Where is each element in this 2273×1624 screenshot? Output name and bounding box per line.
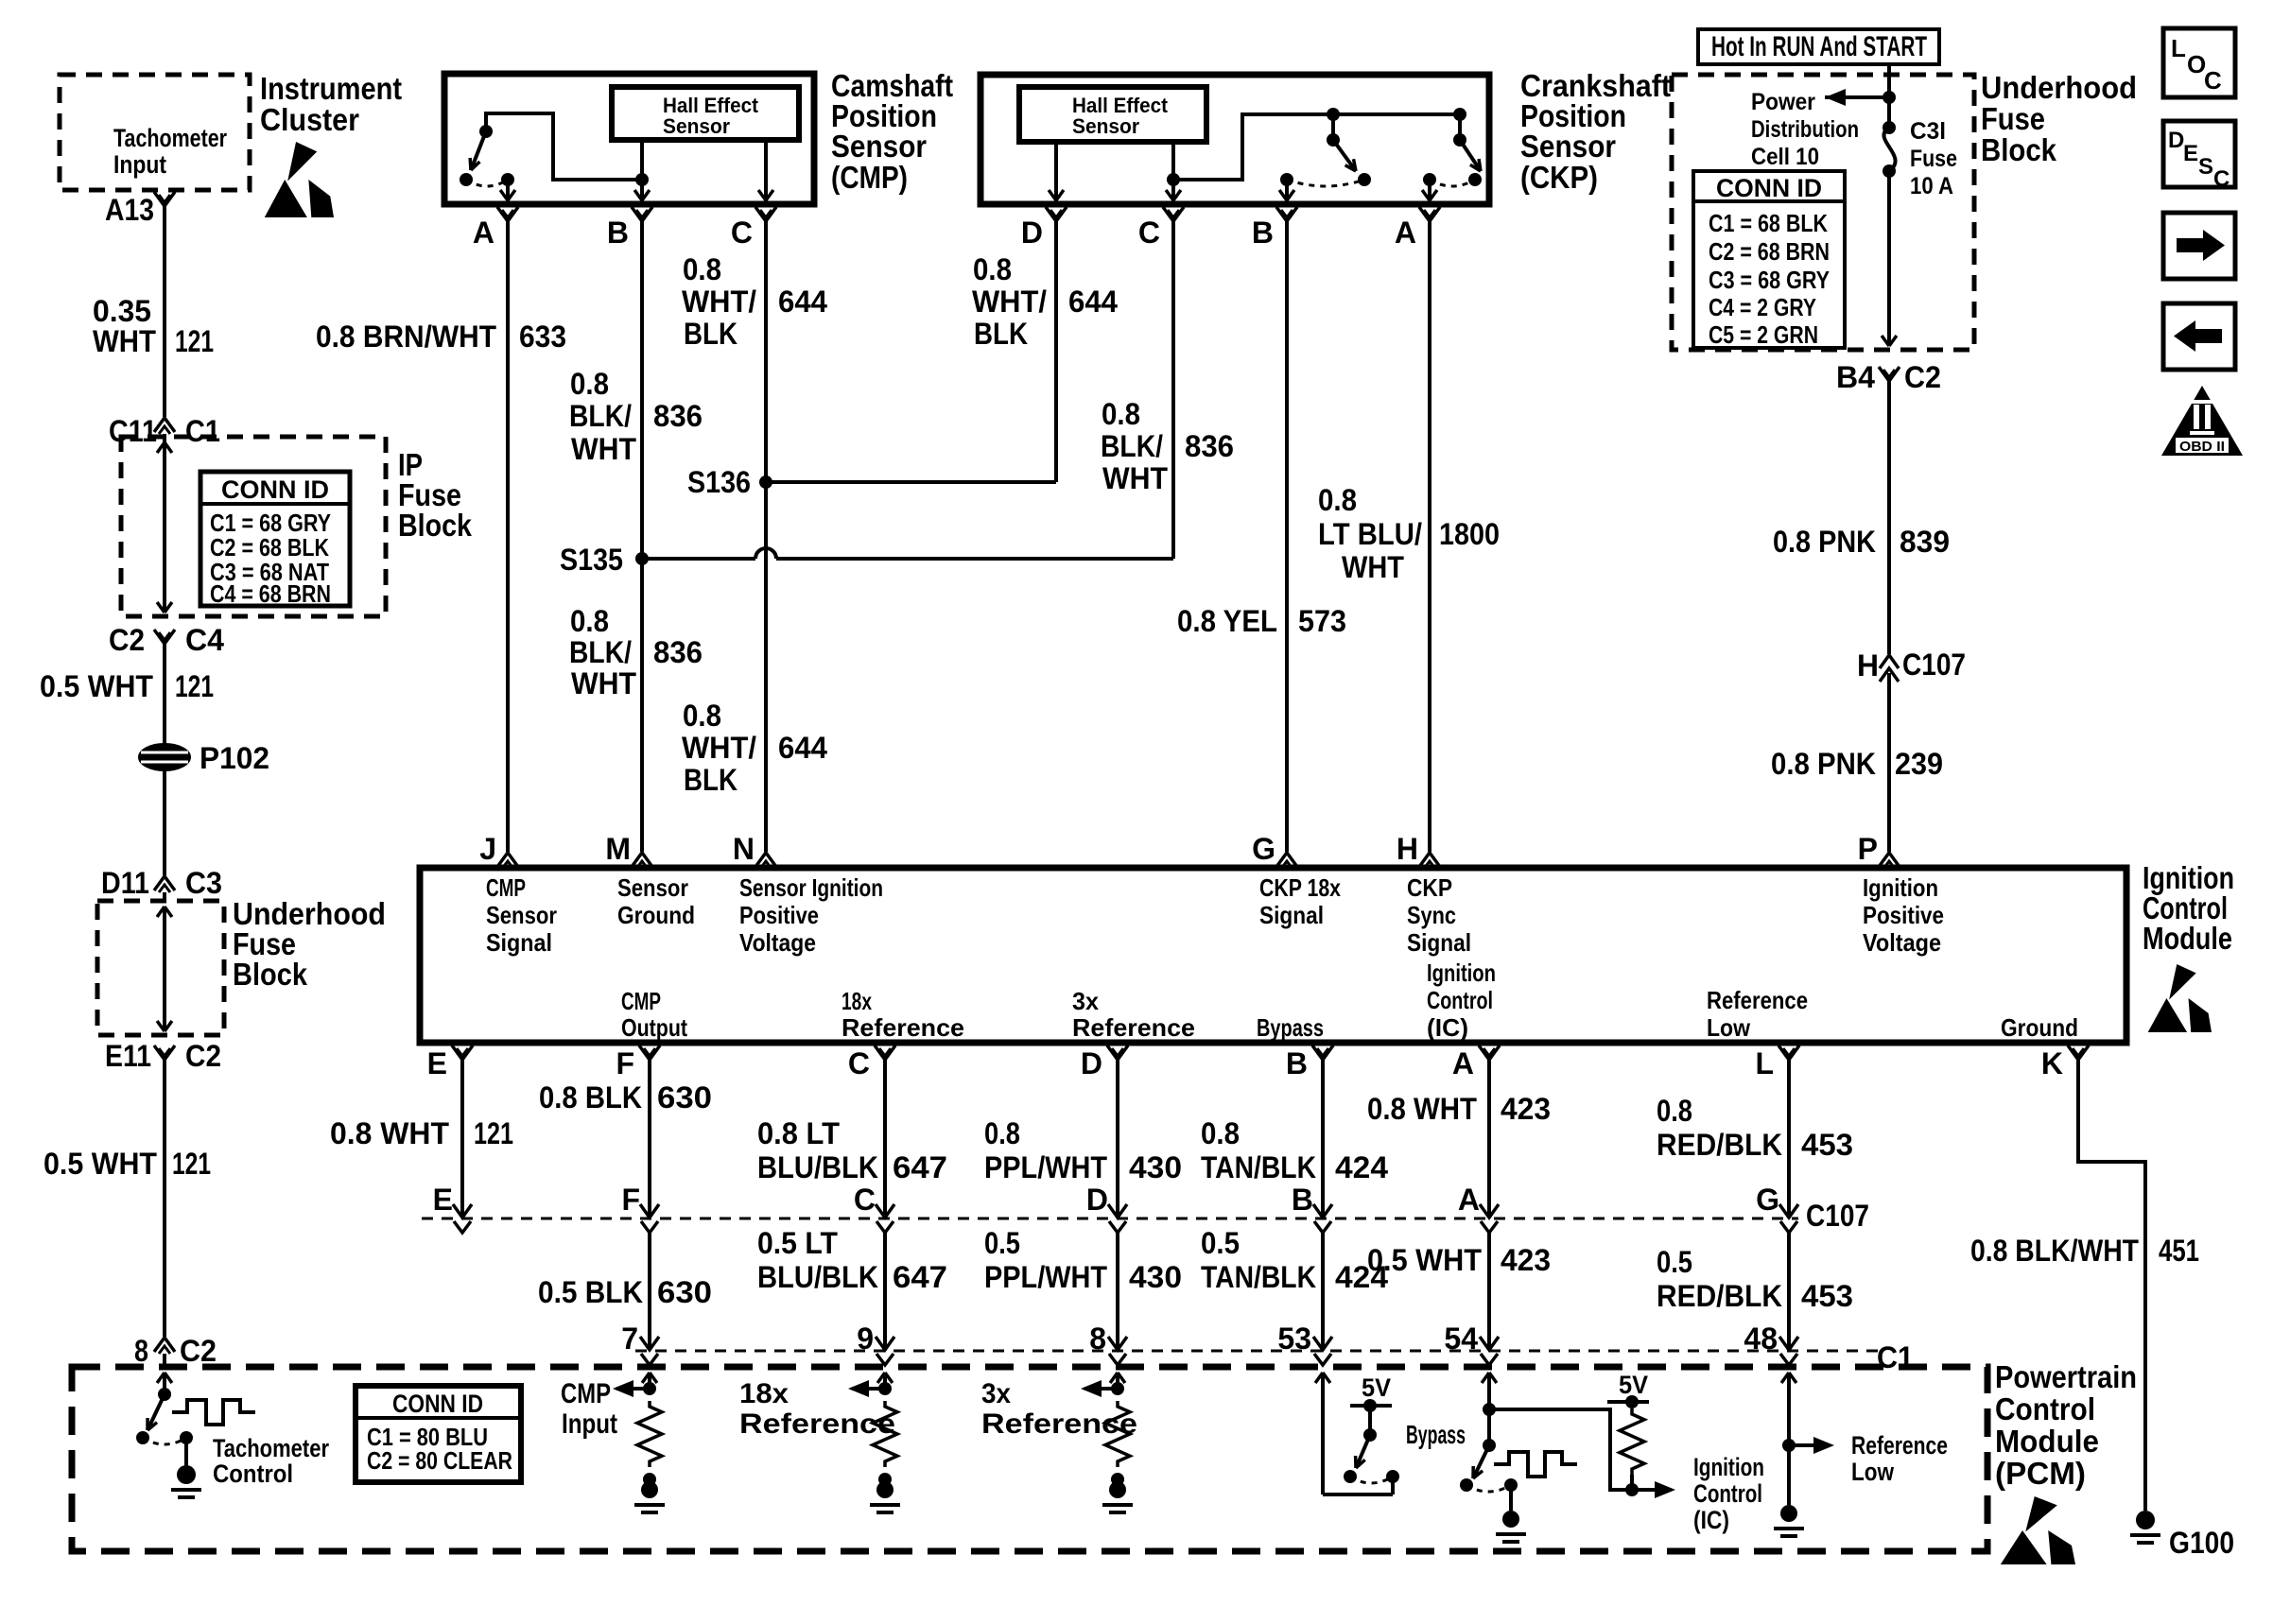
svg-text:8: 8 [1089,1322,1106,1356]
svg-text:C1: C1 [185,414,220,448]
svg-text:C1 = 68 BLK: C1 = 68 BLK [1709,209,1828,237]
svg-text:0.8 LT: 0.8 LT [757,1116,840,1150]
svg-text:8: 8 [134,1334,148,1368]
svg-text:Control: Control [1995,1391,2095,1426]
svg-text:D: D [1081,1046,1102,1080]
svg-text:CMP: CMP [486,873,526,902]
svg-text:C2: C2 [1904,360,1941,394]
svg-text:G: G [1252,832,1275,866]
svg-text:CKP: CKP [1407,873,1452,902]
svg-text:Sync: Sync [1407,901,1456,929]
svg-text:S135: S135 [560,543,623,577]
svg-text:Tachometer: Tachometer [113,124,227,152]
svg-text:0.35: 0.35 [93,294,151,328]
svg-text:836: 836 [653,635,703,669]
svg-text:C2: C2 [109,623,145,657]
svg-text:Positive: Positive [1863,901,1944,929]
svg-text:B: B [1252,216,1274,250]
svg-text:E: E [2183,141,2198,166]
svg-text:(CKP): (CKP) [1520,160,1598,195]
svg-text:CONN ID: CONN ID [221,475,329,504]
svg-text:451: 451 [2159,1234,2199,1268]
svg-text:F: F [621,1183,640,1217]
svg-text:C: C [848,1046,870,1080]
svg-text:0.8 BLK: 0.8 BLK [539,1080,642,1114]
svg-text:Tachometer: Tachometer [213,1434,329,1462]
svg-text:Sensor: Sensor [663,114,730,138]
svg-text:D11: D11 [101,866,149,900]
svg-text:Sensor: Sensor [831,129,927,164]
svg-text:D: D [2168,128,2184,153]
svg-text:453: 453 [1801,1279,1853,1313]
svg-text:C: C [731,216,753,250]
svg-text:H: H [1857,648,1879,682]
svg-text:Signal: Signal [1259,901,1324,929]
svg-text:BLK: BLK [974,317,1028,351]
svg-text:PPL/WHT: PPL/WHT [984,1150,1107,1184]
svg-text:Sensor: Sensor [1520,129,1616,164]
svg-text:A: A [473,216,495,250]
svg-text:Power: Power [1751,89,1815,115]
svg-text:Sensor: Sensor [1072,114,1139,138]
svg-text:836: 836 [653,399,703,433]
svg-text:Sensor: Sensor [617,873,688,902]
svg-text:C11: C11 [109,414,157,448]
svg-text:H: H [1397,832,1418,866]
svg-text:18x: 18x [739,1378,789,1409]
svg-text:0.8: 0.8 [570,604,609,638]
svg-text:Bypass: Bypass [1257,1013,1324,1042]
svg-text:423: 423 [1501,1092,1551,1126]
svg-text:BLK: BLK [684,763,737,797]
svg-text:10 A: 10 A [1910,173,1953,199]
svg-text:CONN ID: CONN ID [1716,174,1822,202]
svg-text:PPL/WHT: PPL/WHT [984,1260,1107,1294]
svg-text:WHT/: WHT/ [682,731,756,765]
svg-text:Ignition: Ignition [1427,959,1496,987]
svg-text:121: 121 [474,1116,513,1150]
svg-text:WHT: WHT [571,666,636,700]
svg-text:CKP 18x: CKP 18x [1259,873,1341,902]
svg-text:OBD II: OBD II [2179,439,2225,455]
svg-text:G: G [1756,1183,1779,1217]
svg-text:Fuse: Fuse [1981,101,2045,136]
svg-text:C2: C2 [180,1334,217,1368]
svg-text:D: D [1086,1183,1108,1217]
svg-text:CMP: CMP [561,1378,611,1409]
svg-text:0.8 WHT: 0.8 WHT [330,1116,449,1150]
svg-text:(IC): (IC) [1427,1013,1468,1042]
svg-text:TAN/BLK: TAN/BLK [1201,1260,1316,1294]
svg-text:Instrument: Instrument [260,71,402,106]
svg-text:C: C [2204,66,2222,95]
svg-text:M: M [605,832,631,866]
svg-text:121: 121 [172,1147,211,1181]
svg-text:C4: C4 [185,623,224,657]
svg-text:839: 839 [1900,525,1950,559]
svg-text:BLU/BLK: BLU/BLK [757,1150,878,1184]
svg-text:E11: E11 [105,1039,151,1073]
svg-text:Voltage: Voltage [739,928,816,957]
svg-text:0.8: 0.8 [1102,397,1140,431]
svg-text:Low: Low [1707,1013,1751,1042]
svg-text:C107: C107 [1902,648,1966,682]
svg-text:Signal: Signal [486,928,552,957]
svg-text:WHT/: WHT/ [972,285,1047,319]
svg-text:Module: Module [2143,921,2232,956]
svg-text:Positive: Positive [739,901,819,929]
svg-text:Block: Block [398,508,473,543]
svg-text:Powertrain: Powertrain [1995,1359,2137,1394]
svg-text:LT BLU/: LT BLU/ [1318,517,1422,551]
svg-text:N: N [733,832,755,866]
svg-text:Input: Input [562,1408,617,1440]
svg-text:Bypass: Bypass [1406,1420,1466,1449]
svg-text:WHT: WHT [1102,461,1168,495]
svg-text:0.5 LT: 0.5 LT [757,1226,838,1260]
svg-text:WHT: WHT [571,432,636,466]
svg-text:644: 644 [778,285,827,319]
svg-text:0.5: 0.5 [1201,1226,1240,1260]
svg-text:RED/BLK: RED/BLK [1657,1128,1782,1162]
svg-text:239: 239 [1895,747,1943,781]
svg-text:5V: 5V [1619,1371,1648,1399]
svg-text:0.8 BLK/WHT: 0.8 BLK/WHT [1970,1234,2139,1268]
svg-text:WHT: WHT [93,324,156,358]
svg-text:3x: 3x [1072,987,1100,1015]
svg-text:B: B [607,216,629,250]
svg-text:TAN/BLK: TAN/BLK [1201,1150,1316,1184]
svg-text:Ground: Ground [2001,1013,2078,1042]
svg-text:C2 = 80 CLEAR: C2 = 80 CLEAR [367,1446,512,1475]
svg-text:Ignition: Ignition [1863,873,1938,902]
svg-text:0.5: 0.5 [984,1226,1020,1260]
svg-text:0.8: 0.8 [1201,1116,1240,1150]
svg-text:Ground: Ground [617,901,695,929]
svg-text:0.8 YEL: 0.8 YEL [1177,604,1277,638]
svg-text:C4 = 2 GRY: C4 = 2 GRY [1709,293,1816,321]
svg-text:(CMP): (CMP) [831,160,908,195]
svg-text:121: 121 [175,669,214,703]
svg-text:L: L [1755,1046,1774,1080]
svg-text:WHT/: WHT/ [682,285,756,319]
svg-text:BLU/BLK: BLU/BLK [757,1260,878,1294]
svg-text:453: 453 [1801,1128,1853,1162]
svg-text:630: 630 [657,1080,712,1114]
svg-text:E: E [433,1183,453,1217]
svg-text:53: 53 [1277,1322,1311,1356]
svg-text:1800: 1800 [1439,517,1500,551]
svg-text:L: L [2171,34,2186,62]
svg-text:Block: Block [1981,132,2057,167]
svg-text:A: A [1395,216,1416,250]
svg-text:B4: B4 [1836,360,1875,394]
svg-text:18x: 18x [842,987,872,1015]
svg-text:J: J [479,832,496,866]
svg-text:F: F [616,1046,634,1080]
svg-text:BLK: BLK [684,317,737,351]
svg-text:0.8 PNK: 0.8 PNK [1773,525,1876,559]
svg-text:G100: G100 [2169,1526,2234,1560]
svg-text:B: B [1286,1046,1308,1080]
svg-text:647: 647 [893,1150,947,1184]
svg-text:Underhood: Underhood [1981,70,2137,105]
svg-text:Reference: Reference [1072,1013,1195,1042]
svg-text:Distribution: Distribution [1751,116,1859,143]
svg-text:0.8 PNK: 0.8 PNK [1771,747,1876,781]
svg-text:Block: Block [233,957,308,992]
svg-text:836: 836 [1185,429,1234,463]
svg-text:RED/BLK: RED/BLK [1657,1279,1782,1313]
svg-text:Input: Input [113,150,166,179]
svg-text:Sensor: Sensor [486,901,557,929]
svg-text:0.5: 0.5 [1657,1245,1692,1279]
svg-text:48: 48 [1744,1322,1778,1356]
svg-text:B: B [1292,1183,1313,1217]
svg-text:WHT: WHT [1342,550,1404,584]
svg-text:Control: Control [1693,1479,1762,1508]
svg-text:D: D [1021,216,1043,250]
svg-text:633: 633 [519,320,566,354]
svg-text:S136: S136 [687,465,751,499]
svg-text:0.8: 0.8 [570,367,609,401]
svg-text:430: 430 [1129,1260,1182,1294]
svg-text:Reference: Reference [1707,986,1808,1014]
svg-text:Voltage: Voltage [1863,928,1941,957]
svg-text:0.5 WHT: 0.5 WHT [1367,1243,1482,1277]
svg-text:Cell 10: Cell 10 [1751,144,1819,170]
svg-text:C3l: C3l [1910,118,1946,145]
svg-text:7: 7 [621,1322,638,1356]
svg-text:P102: P102 [200,741,269,775]
svg-text:BLK/: BLK/ [569,635,632,669]
svg-text:0.8: 0.8 [1657,1094,1692,1128]
svg-text:C107: C107 [1806,1199,1869,1233]
svg-text:647: 647 [893,1260,947,1294]
svg-text:C4 = 68 BRN: C4 = 68 BRN [210,579,331,608]
svg-text:423: 423 [1501,1243,1551,1277]
svg-text:Control: Control [1427,986,1493,1014]
svg-text:0.5 WHT: 0.5 WHT [40,669,153,703]
svg-text:0.5 WHT: 0.5 WHT [43,1147,157,1181]
svg-text:A13: A13 [105,193,154,227]
svg-text:A: A [1452,1046,1474,1080]
svg-text:0.8: 0.8 [1318,483,1357,517]
svg-text:573: 573 [1298,604,1346,638]
svg-text:E: E [427,1046,447,1080]
svg-text:630: 630 [657,1275,712,1309]
svg-text:C: C [854,1183,876,1217]
svg-text:C5 = 2 GRN: C5 = 2 GRN [1709,320,1818,349]
svg-text:(IC): (IC) [1693,1506,1729,1534]
svg-text:0.8: 0.8 [683,252,721,286]
svg-text:644: 644 [1068,285,1118,319]
svg-text:(PCM): (PCM) [1995,1456,2086,1491]
svg-text:3x: 3x [981,1378,1011,1409]
svg-text:0.5 BLK: 0.5 BLK [538,1275,643,1309]
svg-text:C2 = 68 BRN: C2 = 68 BRN [1709,237,1830,266]
svg-text:0.8 WHT: 0.8 WHT [1367,1092,1477,1126]
svg-text:5V: 5V [1362,1373,1391,1402]
svg-text:54: 54 [1444,1322,1478,1356]
svg-text:BLK/: BLK/ [569,399,632,433]
svg-text:Control: Control [213,1460,293,1488]
svg-text:Hot In RUN And START: Hot In RUN And START [1711,31,1927,62]
svg-text:0.8 BRN/WHT: 0.8 BRN/WHT [316,320,496,354]
svg-text:430: 430 [1129,1150,1182,1184]
svg-text:Reference: Reference [1851,1431,1948,1460]
svg-text:Reference: Reference [981,1408,1137,1440]
svg-text:CMP: CMP [621,987,661,1015]
svg-text:121: 121 [175,324,214,358]
svg-text:644: 644 [778,731,827,765]
svg-text:Signal: Signal [1407,928,1471,957]
svg-text:P: P [1858,832,1878,866]
svg-text:Ignition: Ignition [1693,1453,1764,1481]
svg-text:Sensor Ignition: Sensor Ignition [739,873,883,902]
svg-text:9: 9 [857,1322,874,1356]
svg-text:Module: Module [1995,1424,2099,1459]
svg-text:CONN ID: CONN ID [392,1390,483,1418]
svg-text:0.8: 0.8 [984,1116,1020,1150]
svg-text:424: 424 [1335,1150,1388,1184]
svg-text:Output: Output [621,1013,687,1042]
svg-text:S: S [2198,154,2213,180]
svg-text:C2: C2 [185,1039,221,1073]
svg-text:C: C [2213,166,2230,192]
svg-text:C: C [1138,216,1160,250]
svg-text:A: A [1458,1183,1480,1217]
svg-text:Fuse: Fuse [1910,146,1957,172]
svg-text:Cluster: Cluster [260,102,359,137]
svg-text:C3 = 68 GRY: C3 = 68 GRY [1709,266,1830,294]
svg-text:0.8: 0.8 [973,252,1012,286]
svg-text:Low: Low [1851,1458,1895,1486]
svg-text:K: K [2041,1046,2063,1080]
svg-text:0.8: 0.8 [683,699,721,733]
svg-text:C3: C3 [185,866,222,900]
svg-text:Reference: Reference [842,1013,964,1042]
svg-text:BLK/: BLK/ [1101,429,1163,463]
